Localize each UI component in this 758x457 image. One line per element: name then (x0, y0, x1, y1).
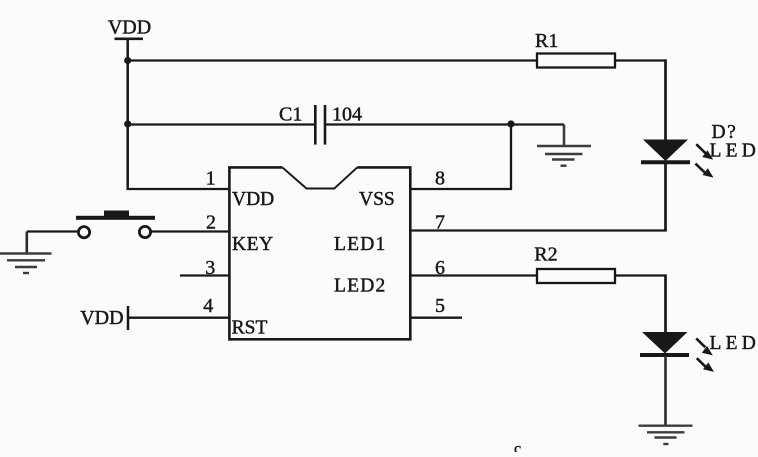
wire R2 to LED2 anode (615, 274, 666, 333)
svg-text:104: 104 (332, 104, 362, 126)
svg-text:R1: R1 (535, 30, 558, 52)
svg-text:3: 3 (205, 257, 215, 279)
wire pin 6 to R2 (410, 274, 537, 276)
wire button to ground (27, 232, 77, 254)
push button S1 (76, 211, 155, 238)
svg-text:R2: R2 (534, 243, 557, 265)
ground (button) (0, 254, 52, 274)
wire pin 8 net (410, 124, 512, 190)
svg-text:VSS: VSS (359, 189, 395, 210)
IC U1 body (229, 167, 410, 339)
wire VDD stem down to pin 1 (127, 39, 231, 189)
wire LED2 cathode to ground (664, 356, 667, 426)
LED D? (top) (641, 122, 758, 178)
svg-text:8: 8 (435, 167, 445, 189)
svg-text:LED2: LED2 (334, 276, 386, 297)
svg-text:2: 2 (206, 212, 216, 234)
ground (bottom) (639, 426, 693, 444)
svg-text:5: 5 (435, 295, 445, 317)
capacitor C1 (279, 104, 362, 145)
wire VDD rail to R1 (128, 59, 537, 61)
svg-text:7: 7 (435, 212, 445, 234)
wire C1 to VSS net (326, 123, 564, 125)
svg-text:VDD: VDD (232, 189, 274, 210)
node junction VDD rail / C1 (124, 120, 131, 127)
svg-text:VDD: VDD (80, 307, 123, 329)
svg-text:4: 4 (203, 295, 213, 317)
svg-text:VDD: VDD (108, 17, 151, 39)
svg-text:KEY: KEY (232, 234, 274, 255)
wire LED cathode to pin 7 (410, 163, 667, 231)
resistor R1 (535, 30, 615, 68)
power symbol VDD (RST) (80, 306, 128, 330)
wire R1 to LED anode (615, 59, 666, 141)
svg-text:LED: LED (710, 140, 758, 161)
svg-text:LED1: LED1 (334, 234, 386, 255)
power symbol VDD (top) (108, 17, 151, 39)
svg-text:LED: LED (710, 333, 758, 354)
resistor R2 (534, 243, 615, 283)
LED (bottom) (640, 332, 758, 372)
node junction VDD rail / R1 (124, 57, 131, 64)
svg-text:1: 1 (206, 167, 216, 189)
node junction pin 8 tap (507, 120, 514, 127)
svg-text:C1: C1 (279, 104, 302, 126)
wire button to pin 2 (152, 230, 231, 232)
wire VDD rail to C1 (128, 123, 314, 125)
wire pin 4 (129, 317, 230, 319)
wire pin 5 stub (410, 317, 462, 319)
svg-text:RST: RST (232, 318, 268, 339)
ground (near C1) (537, 125, 591, 166)
wire pin 3 stub (180, 274, 230, 276)
svg-text:c: c (514, 441, 521, 453)
